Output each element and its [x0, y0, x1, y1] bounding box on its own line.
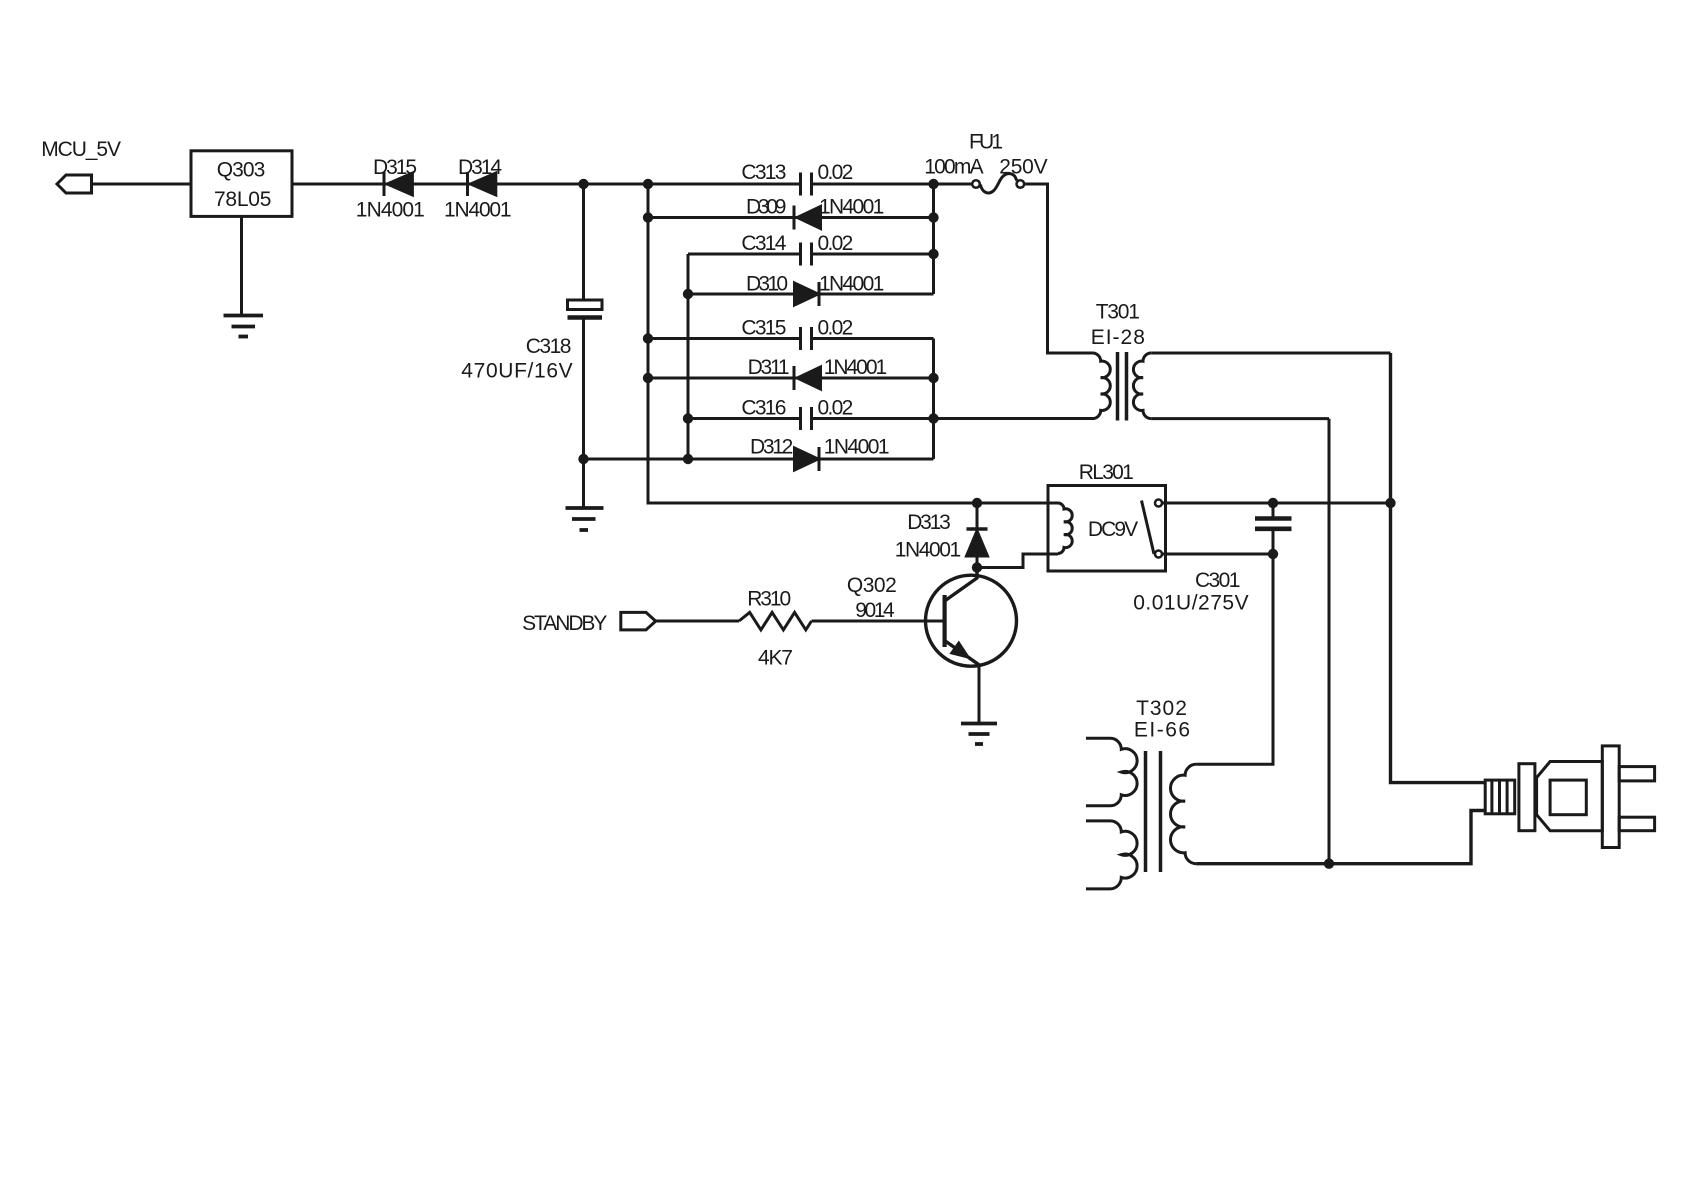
node D313 cathode junction	[972, 498, 982, 508]
svg-text:C318: C318	[526, 335, 572, 358]
svg-text:100mA: 100mA	[924, 156, 983, 179]
svg-text:0.02: 0.02	[818, 397, 854, 420]
relay RL301	[1048, 486, 1391, 572]
diode D312	[795, 447, 820, 471]
wire relay bottom contact	[1162, 553, 1273, 556]
node C316 right junction	[928, 413, 938, 423]
node C318 top junction	[578, 179, 588, 189]
wire row D309	[648, 216, 934, 219]
node D312 left junction	[578, 454, 588, 464]
transformer T301	[1093, 352, 1391, 421]
diode D309	[794, 206, 821, 230]
transistor Q302	[926, 568, 1017, 724]
transformer T302	[1086, 738, 1196, 889]
regulator Q303 box	[191, 151, 292, 217]
svg-text:1N4001: 1N4001	[895, 539, 962, 562]
svg-text:Q302: Q302	[847, 574, 897, 597]
wire bus right upper	[932, 184, 935, 294]
svg-text:C314: C314	[741, 232, 786, 255]
wire R310 to Q302 base	[812, 620, 944, 623]
svg-text:MCU_5V: MCU_5V	[41, 138, 121, 161]
svg-text:1N4001: 1N4001	[824, 436, 890, 459]
svg-text:1N4001: 1N4001	[444, 199, 512, 222]
wire Q303 ground stem	[240, 216, 243, 316]
svg-text:C316: C316	[741, 397, 786, 420]
ground below Q302	[961, 724, 997, 745]
svg-text:EI-28: EI-28	[1091, 326, 1145, 349]
diode D313	[967, 503, 988, 568]
diode D310	[795, 282, 820, 306]
node D310 left junction	[683, 289, 693, 299]
wire row C316 to T301	[688, 417, 801, 420]
node D311 left junction	[643, 373, 653, 383]
svg-text:C301: C301	[1195, 569, 1240, 592]
node bus-A top junction	[643, 179, 653, 189]
svg-text:0.02: 0.02	[818, 232, 854, 255]
node D309 left junction	[643, 212, 653, 222]
svg-text:C315: C315	[741, 317, 786, 340]
svg-text:1N4001: 1N4001	[824, 356, 888, 379]
svg-text:RL301: RL301	[1079, 461, 1134, 484]
wire D313 anode to relay coil	[977, 554, 1058, 568]
ground below Q303	[224, 316, 264, 337]
svg-text:D314: D314	[458, 156, 502, 179]
diode D315	[384, 172, 412, 196]
wire bus left B	[687, 254, 690, 459]
svg-text:0.01U/275V: 0.01U/275V	[1133, 592, 1248, 615]
svg-text:470UF/16V: 470UF/16V	[461, 360, 572, 383]
fuse FU1	[972, 174, 1092, 353]
wire row C314	[688, 253, 801, 256]
svg-text:STANDBY: STANDBY	[522, 612, 607, 635]
wire row D312	[584, 458, 934, 461]
capacitor C301	[1255, 503, 1292, 554]
svg-text:EI-66: EI-66	[1134, 719, 1190, 742]
wire row C315	[648, 337, 801, 340]
node STANDBY connector	[621, 612, 656, 630]
capacitor C313	[801, 173, 812, 196]
svg-text:D313: D313	[907, 511, 951, 534]
svg-text:D311: D311	[748, 356, 790, 379]
svg-text:D310: D310	[746, 273, 788, 296]
svg-text:78L05: 78L05	[214, 188, 271, 211]
svg-text:1N4001: 1N4001	[819, 196, 884, 219]
wire T301 secondary top down right side	[1391, 353, 1486, 783]
svg-text:250V: 250V	[999, 156, 1047, 179]
svg-text:0.02: 0.02	[818, 161, 854, 184]
node D311 right junction	[928, 373, 938, 383]
svg-text:R310: R310	[747, 588, 791, 611]
svg-text:D315: D315	[373, 156, 417, 179]
node C315 left junction	[643, 333, 653, 343]
ground below C318	[566, 508, 604, 530]
wire relay top contact	[1162, 502, 1391, 505]
wire bus left A	[648, 184, 1058, 503]
svg-text:C313: C313	[741, 161, 786, 184]
wire C301 bottom to T302 secondary top	[1196, 554, 1273, 764]
svg-text:1N4001: 1N4001	[356, 199, 425, 222]
svg-text:D309: D309	[746, 196, 786, 219]
resistor R310	[739, 612, 812, 630]
wire row D310	[688, 293, 934, 296]
wire STANDBY to R310	[656, 620, 739, 623]
capacitor C314	[801, 243, 812, 266]
node C314 right junction	[928, 249, 938, 259]
node D309 right junction	[928, 212, 938, 222]
node D313 anode junction	[972, 562, 982, 572]
svg-text:9014: 9014	[855, 599, 895, 622]
node C301 top junction	[1268, 498, 1278, 508]
node C301 bottom junction	[1268, 549, 1278, 559]
wire main rail right of C313 to fuse	[812, 183, 972, 186]
wire MCU_5V to Q303	[92, 183, 192, 186]
wire T302 secondary bottom to plug	[1196, 811, 1485, 864]
AC plug	[1485, 746, 1654, 848]
wire T301 secondary bottom down	[1328, 419, 1331, 864]
diode D311	[794, 366, 821, 390]
wire bus right lower	[932, 339, 935, 460]
svg-text:Q303: Q303	[217, 159, 265, 182]
capacitor C315	[801, 327, 812, 350]
wire Q303 output main rail	[293, 183, 801, 186]
svg-text:4K7: 4K7	[758, 647, 793, 670]
capacitor C316	[801, 407, 812, 430]
node relay contact junction	[1385, 498, 1395, 508]
capacitor C318	[568, 184, 603, 508]
node MCU_5V connector	[57, 175, 92, 193]
node C316 left junction	[683, 413, 693, 423]
wire row D311	[648, 377, 934, 380]
svg-text:D312: D312	[750, 436, 793, 459]
svg-text:0.02: 0.02	[818, 317, 854, 340]
svg-text:1N4001: 1N4001	[819, 273, 884, 296]
svg-text:T301: T301	[1096, 301, 1140, 324]
diode D314	[468, 172, 496, 196]
node fuse input junction	[928, 179, 938, 189]
svg-text:FU1: FU1	[969, 131, 1003, 154]
svg-text:T302: T302	[1136, 697, 1187, 720]
node bus-B bottom junction	[683, 454, 693, 464]
svg-text:DC9V: DC9V	[1088, 518, 1138, 541]
node T302 secondary bottom junction	[1324, 859, 1334, 869]
